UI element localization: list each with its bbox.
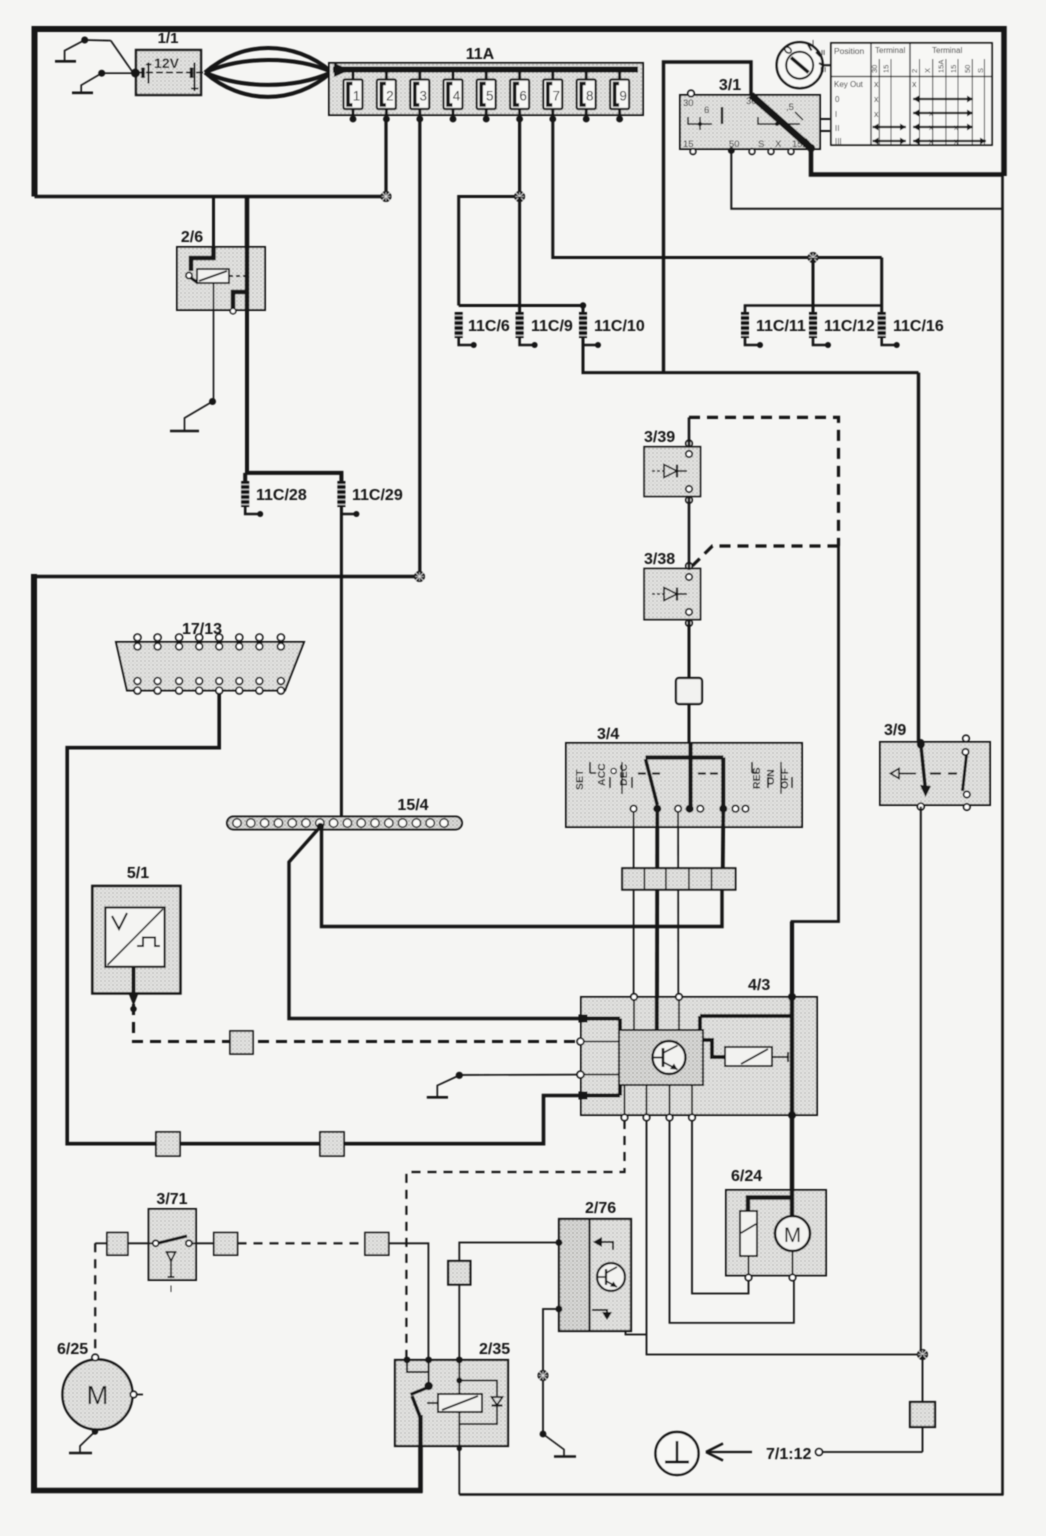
svg-text:7: 7 — [553, 89, 561, 104]
svg-text:6: 6 — [704, 105, 709, 116]
17/13 pin — [216, 634, 223, 694]
svg-text:2/6: 2/6 — [181, 229, 203, 246]
wire drop to 2/6 pin 1 — [212, 197, 215, 248]
svg-text:11A: 11A — [466, 46, 495, 63]
fusebox bus wire — [333, 67, 638, 73]
key position table — [831, 43, 992, 146]
svg-text:M: M — [87, 1380, 109, 1410]
4/3 thick bus to right — [700, 1014, 792, 1018]
wire bus 11C/6 to 11C/10 — [459, 304, 583, 307]
ignition key symbol — [777, 39, 831, 88]
svg-text:9: 9 — [619, 89, 627, 104]
svg-text:,5: ,5 — [786, 102, 794, 113]
svg-text:8: 8 — [586, 89, 594, 104]
wire 11C/10 to 30-feed riser — [583, 338, 919, 373]
svg-text:15A: 15A — [937, 60, 946, 73]
frame top border (30-rail) — [32, 26, 1005, 32]
fuse 7 — [543, 70, 562, 123]
svg-text:6/25: 6/25 — [57, 1341, 88, 1358]
15/4 tap junction — [317, 823, 324, 830]
inline connector to 2/35 — [448, 1261, 470, 1285]
svg-text:11C/29: 11C/29 — [352, 487, 403, 504]
17/13 pin — [278, 634, 285, 694]
frame right rail lower — [1001, 175, 1004, 1496]
ground symbol below 2/76 — [540, 1431, 576, 1457]
wire 3/71 left to 6/25 — [128, 1242, 153, 1244]
17/13 pin — [236, 634, 243, 694]
3/1 wiper (hatched diagonal) — [751, 95, 811, 148]
wire 15/4 to 4/3 input (upper) — [289, 827, 581, 1019]
svg-text:11C/6: 11C/6 — [468, 318, 510, 335]
inline connector near 2/35 — [365, 1233, 389, 1256]
wire 11C/9 drop — [518, 197, 521, 313]
wire drop to 2/6 pin 2 — [245, 197, 250, 248]
fuse 9 — [610, 70, 629, 123]
fuse 3 — [410, 70, 429, 123]
connector 11C/28 — [241, 481, 263, 517]
wire through 3/39 3/38 — [688, 417, 691, 446]
wire elbow to 11C/6 — [459, 197, 520, 306]
svg-text:1: 1 — [353, 89, 361, 104]
wire connector to 3/4 — [688, 704, 691, 744]
wire 2/6 output to 11C/28 and 11C/29 — [247, 310, 341, 481]
wire 4/3 pin2 to ground junction — [647, 1120, 923, 1355]
svg-text:2: 2 — [910, 69, 919, 73]
svg-text:3/38: 3/38 — [644, 551, 675, 568]
wire 15/4 to 3/4 switch common — [322, 828, 723, 927]
svg-text:11C/16: 11C/16 — [893, 318, 944, 335]
dashed loop wire over diodes — [689, 417, 839, 546]
svg-text:2: 2 — [386, 89, 394, 104]
svg-text:3/1: 3/1 — [719, 77, 741, 94]
wire drop 11C/12 — [812, 258, 815, 313]
svg-text:11C/10: 11C/10 — [594, 318, 645, 335]
wire 3/9 to ground junction — [920, 807, 922, 1355]
wire fuse 7 down and right — [553, 120, 882, 258]
fuse 2 — [377, 70, 396, 123]
svg-text:x: x — [929, 109, 933, 118]
svg-text:III: III — [820, 65, 826, 74]
svg-text:4/3: 4/3 — [748, 977, 770, 994]
svg-text:DEC: DEC — [618, 763, 630, 786]
wire drop 11C/16 — [880, 258, 883, 313]
svg-text:S: S — [758, 139, 764, 150]
svg-text:0: 0 — [835, 95, 840, 104]
svg-text:I: I — [170, 1284, 173, 1294]
svg-text:Position: Position — [834, 46, 865, 56]
svg-text:4: 4 — [453, 89, 461, 104]
junction below fuse 6 — [514, 191, 525, 202]
svg-text:6/24: 6/24 — [731, 1168, 762, 1185]
svg-text:S: S — [976, 68, 985, 73]
connector 11C/11 — [741, 312, 763, 348]
dashed wire 5/1 to 4/3 — [134, 1004, 579, 1042]
svg-text:x: x — [874, 94, 879, 104]
fuse 5 — [477, 70, 496, 123]
3/4 internal contacts — [688, 744, 692, 806]
junction feed 11C/12 — [808, 252, 819, 263]
wire 2/76 lower to ground — [543, 1309, 559, 1434]
fuse 4 — [444, 70, 463, 123]
wire right branch down to 4/3 — [792, 546, 839, 997]
connector 11C/16 — [878, 312, 900, 348]
svg-text:I: I — [812, 39, 814, 48]
junction to 7/1:12 — [917, 1349, 928, 1360]
wire 11C/10 drop — [582, 306, 585, 313]
svg-text:Terminal: Terminal — [932, 46, 962, 55]
inline connector on ground bus left — [156, 1132, 180, 1156]
svg-text:50: 50 — [963, 65, 972, 73]
wire 11C/29 down to 15/4 — [340, 507, 343, 818]
svg-text:30: 30 — [683, 98, 694, 109]
svg-text:Terminal: Terminal — [875, 46, 905, 55]
svg-text:3: 3 — [420, 89, 428, 104]
svg-text:ON: ON — [765, 769, 777, 785]
svg-text:II: II — [835, 124, 839, 133]
4/3 inner module — [619, 1030, 703, 1085]
svg-text:15: 15 — [949, 65, 958, 73]
svg-text:11C/11: 11C/11 — [756, 318, 806, 335]
inline connector above 3/4 — [676, 678, 702, 704]
wire bundle battery to fusebox — [205, 48, 331, 73]
4/3 relay — [703, 1040, 725, 1057]
ground symbol below 6/25 — [69, 1428, 98, 1453]
17/13 pin — [196, 634, 203, 694]
junction below fuse 2 — [381, 191, 392, 202]
svg-text:X: X — [775, 139, 782, 150]
wire 2/76 bottom stub — [626, 1331, 647, 1335]
svg-text:3/39: 3/39 — [644, 429, 675, 446]
wire fuse 3 down — [418, 120, 421, 577]
svg-text:15/4: 15/4 — [397, 797, 428, 814]
connector 11C/10 — [579, 312, 601, 348]
svg-text:M: M — [784, 1224, 802, 1247]
svg-text:x: x — [912, 79, 917, 89]
wire fuse 6 down — [518, 120, 521, 197]
wire 3/71 right (dashed) to 2/35 — [192, 1242, 214, 1244]
wire 2/35 coil to bottom rail — [458, 1446, 460, 1495]
wire fuse 2 down — [384, 120, 387, 197]
svg-text:I: I — [835, 110, 837, 119]
svg-text:Key Out: Key Out — [834, 80, 864, 89]
4/3 through wire — [790, 997, 794, 1115]
5/1 output pin arrow — [132, 967, 136, 993]
17/13 pin — [256, 634, 263, 694]
dashed wire 4/3 to 2/35 — [406, 1120, 624, 1358]
junction on 2/76 ground wire — [538, 1370, 549, 1381]
wire 4/3 pin3 to pump motor — [670, 1120, 794, 1323]
ground symbol battery lower — [72, 70, 133, 93]
wire 31-rail horizontal to junction — [34, 575, 420, 579]
17/13 pin — [154, 634, 161, 694]
junction fuse3 / 31-rail — [414, 571, 425, 582]
inline connector on ground bus right — [320, 1132, 344, 1156]
svg-text:1/1: 1/1 — [158, 30, 179, 47]
frame bottom thin segment — [459, 1493, 1003, 1495]
fuse 1 — [344, 70, 363, 123]
svg-text:x: x — [929, 123, 933, 132]
connector 11C/12 — [809, 312, 831, 348]
ground symbol below 2/6 — [170, 398, 216, 431]
wire 4/3 pin4 to pump resistor — [692, 1120, 749, 1294]
svg-text:3/4: 3/4 — [597, 726, 619, 743]
wire junction to connector 7/1:12 — [922, 1355, 924, 1403]
connector 11C/9 — [516, 312, 538, 348]
frame right border upper (thick) — [1001, 26, 1007, 176]
svg-text:II: II — [821, 48, 825, 57]
ground symbol battery upper — [55, 37, 133, 74]
svg-text:5: 5 — [486, 89, 494, 104]
svg-text:3/9: 3/9 — [884, 722, 906, 739]
wire to ground point 7/1:12 — [822, 1451, 923, 1453]
svg-text:2/35: 2/35 — [479, 1341, 510, 1358]
inline connector on dashed wire — [230, 1031, 253, 1054]
wire 3/1 terminal 50 — [731, 150, 1002, 209]
ground switch at 4/3 input — [427, 1072, 578, 1098]
wire branch 11C/11 — [745, 306, 882, 313]
svg-text:SET: SET — [574, 769, 586, 790]
connector 11C/29 — [337, 481, 359, 517]
frame left border lower (31-rail) — [31, 574, 37, 1492]
3/1 bottom pins — [690, 149, 696, 155]
svg-text:15: 15 — [882, 65, 891, 73]
wire 2/6 to ground — [213, 310, 215, 402]
svg-text:12V: 12V — [154, 55, 180, 71]
17/13 pin — [134, 634, 141, 694]
4/3 bottom pins — [624, 1085, 626, 1115]
inline connector left of 3/71 — [107, 1233, 128, 1256]
svg-text:3/71: 3/71 — [156, 1191, 187, 1208]
svg-text:6: 6 — [519, 89, 527, 104]
svg-text:x: x — [954, 123, 958, 132]
inline connector above 7/1:12 — [910, 1402, 935, 1427]
wires 3/4 down to strip — [633, 812, 635, 995]
wire 2/35 switch to ground bus (thick) — [34, 1446, 421, 1491]
connector 11C/6 — [455, 312, 477, 348]
svg-text:X: X — [923, 68, 932, 73]
frame left border upper — [32, 26, 38, 197]
frame bottom thick segment (ground bus) — [31, 1488, 423, 1494]
svg-text:11C/12: 11C/12 — [824, 318, 875, 335]
battery 1/1 — [131, 30, 203, 95]
17/13 pin — [176, 634, 183, 694]
svg-text:2/76: 2/76 — [585, 1200, 616, 1217]
svg-text:11C/9: 11C/9 — [531, 318, 573, 335]
wire 2/76 upper input — [459, 1243, 559, 1262]
svg-text:x: x — [929, 137, 933, 146]
transistor symbol in 4/3 — [653, 1041, 686, 1074]
svg-text:x: x — [874, 79, 879, 89]
wire riser to terminal 30 of 3/1 — [664, 62, 752, 373]
svg-text:5/1: 5/1 — [127, 865, 149, 882]
4/3 top pins — [631, 994, 637, 1000]
inline connector strip below 3/4 — [622, 868, 735, 890]
svg-text:11C/28: 11C/28 — [256, 487, 307, 504]
fuse 6 — [510, 70, 529, 123]
4/3 left pins and internal wires — [583, 1017, 620, 1021]
svg-text:7/1:12: 7/1:12 — [766, 1446, 811, 1463]
svg-text:x: x — [874, 109, 879, 119]
svg-text:30: 30 — [870, 65, 879, 73]
svg-text:ACC: ACC — [596, 763, 608, 786]
inline connector right of 3/71 — [214, 1233, 238, 1256]
ground symbol circle — [656, 1432, 699, 1475]
wire 4/3 to 6/24 (thick) — [790, 1115, 794, 1192]
wire feed to 3/9 — [917, 373, 920, 742]
wire 3/1 terminal 15A to right rail — [811, 150, 1002, 175]
svg-text:III: III — [835, 137, 842, 146]
svg-text:x: x — [954, 137, 958, 146]
wire 30-rail left to junction below fuse 2 — [35, 195, 387, 199]
fuse 8 — [577, 70, 596, 123]
wire 17/13 to ground bus — [67, 693, 581, 1144]
